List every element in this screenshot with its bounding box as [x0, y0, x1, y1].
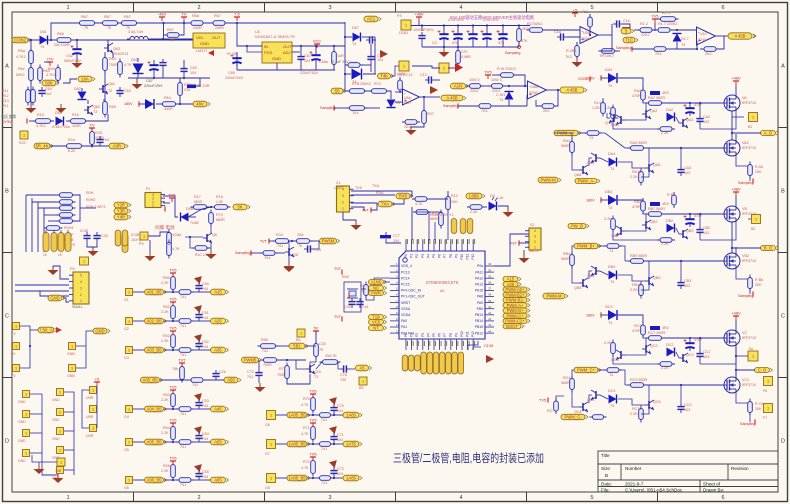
resistor RD4 — [701, 47, 719, 52]
svg-text:U5: U5 — [440, 289, 445, 293]
svg-text:R1a: R1a — [582, 10, 590, 14]
transistor Q6c — [203, 233, 212, 243]
svg-text:1: 1 — [66, 5, 69, 11]
svg-text:PWR: PWR — [371, 291, 381, 296]
svg-text:QC6: QC6 — [611, 358, 619, 362]
svg-text:A: A — [781, 64, 785, 70]
svg-text:TV5: TV5 — [539, 399, 546, 403]
svg-text:TXA: TXA — [372, 184, 380, 188]
bottom pill 10 — [458, 352, 464, 374]
svg-text:B1: B1 — [748, 125, 752, 129]
net pill PWM top right — [538, 177, 561, 183]
RC row 1 input box — [126, 289, 133, 296]
svg-text:14R: 14R — [337, 54, 344, 58]
resistor R2A — [439, 210, 444, 229]
wire lp — [384, 281, 390, 283]
svg-text:440R: 440R — [164, 107, 173, 111]
svg-text:PWM-B2-: PWM-B2- — [506, 298, 525, 303]
ground left — [26, 104, 37, 113]
key box M1 — [69, 365, 76, 372]
svg-text:10: 10 — [396, 317, 400, 321]
driver B wires — [598, 245, 607, 247]
resistor RC2 — [575, 43, 580, 60]
RC row 4 series resistor — [176, 407, 194, 412]
resistor R2B — [467, 205, 485, 210]
svg-text:PW5M: PW5M — [322, 239, 335, 244]
wire u6a in — [395, 91, 402, 93]
svg-text:P0: P0 — [404, 333, 408, 337]
svg-text:C1a: C1a — [554, 30, 562, 34]
pair3 lower pwm pill — [561, 414, 588, 419]
wire r750 — [164, 34, 168, 36]
resistor RF2 — [517, 26, 522, 45]
svg-text:D62: D62 — [131, 58, 138, 62]
svg-text:+48V: +48V — [731, 76, 741, 81]
svg-text:IC3C: IC3C — [100, 234, 109, 238]
svg-text:QC2: QC2 — [650, 344, 658, 348]
net pill 48V — [193, 101, 210, 107]
svg-text:560R: 560R — [561, 257, 570, 261]
svg-text:Y4R: Y4R — [117, 215, 125, 220]
svg-text:U3: U3 — [255, 30, 260, 34]
svg-text:2SA2013: 2SA2013 — [113, 52, 128, 56]
svg-text:T4: T4 — [608, 84, 612, 88]
svg-text:PWM_C+: PWM_C+ — [577, 368, 596, 373]
svg-text:R77: R77 — [279, 367, 286, 371]
svg-text:C_O: C_O — [758, 368, 767, 373]
svg-text:1: 1 — [71, 345, 73, 349]
svg-text:R7C: R7C — [374, 82, 382, 86]
svg-text:CA2: CA2 — [703, 115, 710, 119]
power flag 5v cluster — [94, 377, 100, 387]
svg-text:P10: P10 — [460, 254, 464, 260]
pair3 samp res — [748, 399, 753, 416]
driver C diode — [609, 395, 617, 404]
driver A res 560 v — [570, 139, 575, 156]
pair2 samp res — [748, 275, 753, 292]
pair3 out pill — [755, 368, 773, 373]
svg-text:PC13: PC13 — [401, 270, 410, 274]
svg-text:A06_B5: A06_B5 — [147, 478, 163, 483]
RC row 1 pullup resistor — [171, 274, 176, 293]
svg-text:750R: 750R — [277, 373, 286, 377]
mcu left pills upper — [369, 280, 387, 285]
svg-text:RC9 560R: RC9 560R — [630, 378, 648, 382]
gnd box C1 — [90, 406, 97, 413]
svg-text:1: 1 — [128, 320, 130, 324]
svg-text:2: 2 — [534, 240, 536, 244]
driver A gate cap — [696, 115, 703, 125]
svg-text:71C: 71C — [625, 38, 633, 43]
svg-text:VCC: VCC — [313, 39, 321, 44]
wire xtal — [366, 278, 390, 300]
svg-text:IRF3710: IRF3710 — [742, 101, 756, 105]
capacitor C72 — [452, 30, 463, 42]
svg-text:TV5: TV5 — [169, 456, 176, 461]
svg-text:T3: T3 — [93, 110, 97, 114]
svg-text:470R: 470R — [632, 94, 641, 98]
mcu left pin names — [401, 264, 425, 335]
gnd box A1 — [23, 411, 30, 418]
svg-text:1: 1 — [59, 391, 61, 395]
svg-text:3: 3 — [328, 5, 331, 11]
resistor R34 — [273, 239, 292, 244]
op-amp U9A — [580, 27, 598, 44]
net pill AIN — [451, 83, 469, 89]
svg-text:T4: T4 — [352, 42, 356, 46]
svg-text:1: 1 — [403, 65, 405, 69]
svg-text:DB2: DB2 — [666, 219, 673, 223]
svg-text:P6: P6 — [763, 389, 767, 393]
svg-text:B5: B5 — [359, 386, 364, 390]
net label ACIN — [364, 16, 381, 22]
net pill PWM-C2+ — [503, 319, 530, 324]
svg-text:7K4: 7K4 — [655, 52, 662, 56]
svg-text:1: 1 — [92, 408, 94, 412]
svg-text:L16: L16 — [497, 196, 503, 200]
svg-text:D: D — [5, 439, 9, 445]
driver A boot cap — [684, 104, 695, 116]
svg-text:G6: G6 — [124, 486, 129, 490]
svg-text:Sampling: Sampling — [443, 104, 458, 108]
svg-text:7n4: 7n4 — [103, 138, 109, 142]
RC row 3 input box — [126, 347, 133, 354]
svg-text:C52: C52 — [202, 340, 209, 344]
svg-text:A 45B: A 45B — [446, 96, 457, 101]
op-amp U8A — [528, 81, 547, 99]
driver B res 2.2K left — [611, 216, 616, 233]
power flag top — [89, 123, 95, 133]
RC row 6 out pill — [211, 477, 229, 483]
svg-text:PB15: PB15 — [475, 325, 483, 329]
svg-text:NRST: NRST — [401, 301, 410, 305]
svg-text:TV5: TV5 — [309, 452, 316, 457]
svg-text:AC1: AC1 — [367, 17, 376, 22]
driver B Q mid — [642, 220, 651, 230]
resistor RD0 — [658, 17, 679, 22]
svg-text:TVT: TVT — [260, 240, 268, 244]
svg-text:750R: 750R — [109, 63, 118, 67]
svg-text:RC2: RC2 — [634, 324, 641, 328]
net pill T4b — [378, 73, 394, 79]
RC row 1 cap flag — [194, 273, 205, 284]
capacitor C74 — [481, 30, 492, 42]
net box D2 — [439, 63, 449, 73]
svg-text:P2: P2 — [415, 254, 419, 258]
svg-text:4.7K: 4.7K — [124, 63, 132, 67]
svg-text:220uF/16V: 220uF/16V — [300, 71, 319, 75]
svg-text:4: 4 — [80, 280, 82, 284]
svg-text:35: 35 — [488, 274, 492, 278]
svg-text:PC14: PC14 — [401, 276, 410, 280]
capacitor CC1 — [557, 33, 567, 40]
svg-text:560R: 560R — [561, 144, 570, 148]
net pill PWM-A+ — [503, 303, 530, 308]
svg-text:20K: 20K — [755, 407, 762, 411]
svg-text:GND: GND — [272, 56, 281, 61]
power +5 opc — [572, 8, 578, 18]
resistor R67a — [77, 21, 98, 26]
gnd box C0 — [90, 387, 97, 394]
svg-text:2021-9-7: 2021-9-7 — [625, 482, 644, 487]
connector SMALL — [69, 272, 89, 304]
gnd box B1 — [57, 409, 64, 416]
driver A res 2.2K — [639, 169, 644, 186]
svg-text:6: 6 — [721, 5, 724, 11]
svg-text:VA2: VA2 — [742, 141, 749, 145]
RC row 3 capacitor — [195, 340, 202, 350]
connector X1 UART — [337, 186, 354, 212]
driver C Q mid — [642, 344, 651, 354]
svg-text:1A65: 1A65 — [346, 413, 356, 418]
svg-text:UNR: UNR — [86, 415, 94, 419]
svg-text:76b: 76b — [172, 367, 178, 371]
svg-text:1: 1 — [59, 430, 61, 434]
power flag p1 — [168, 193, 175, 203]
resistor R41 — [364, 282, 369, 299]
IC U2 LM317 — [193, 33, 225, 48]
svg-text:D1.7: D1.7 — [681, 37, 689, 41]
svg-text:PB14: PB14 — [475, 319, 483, 323]
connector P1 — [145, 193, 165, 209]
svg-text:2: 2 — [443, 67, 445, 71]
driver B pwm res — [604, 244, 622, 249]
ground cluster sym — [53, 474, 64, 483]
capacitor C70 — [418, 32, 425, 42]
svg-text:GND: GND — [52, 437, 60, 441]
svg-text:1A85: 1A85 — [346, 476, 356, 481]
svg-text:T4: T4 — [609, 249, 613, 253]
driver A res 2.2K left — [611, 105, 616, 122]
svg-text:RA4: RA4 — [563, 139, 570, 143]
resistor RL3 yellow — [58, 233, 64, 252]
svg-text:P3: P3 — [421, 254, 425, 258]
RC row wide resistor v — [180, 364, 185, 383]
svg-text:QB5: QB5 — [653, 276, 660, 280]
svg-text:1: 1 — [128, 479, 130, 483]
wire mcu top net — [411, 207, 413, 240]
svg-text:D62: D62 — [74, 87, 81, 91]
svg-text:1: 1 — [15, 367, 17, 371]
svg-text:1: 1 — [342, 207, 344, 211]
snub cap T1 — [187, 85, 196, 89]
svg-text:T2: T2 — [108, 89, 112, 93]
svg-text:+48V: +48V — [414, 12, 424, 17]
svg-text:180V: 180V — [586, 314, 595, 318]
svg-text:3: 3 — [328, 495, 331, 501]
svg-text:180V: 180V — [586, 199, 595, 203]
power flag 77V — [47, 57, 54, 67]
capacitor C2x — [159, 59, 166, 69]
svg-text:103: 103 — [684, 284, 690, 288]
block6 wire — [556, 396, 564, 401]
svg-text:A05_B5: A05_B5 — [147, 440, 163, 445]
svg-text:RA9 560R: RA9 560R — [630, 141, 647, 145]
svg-text:RA2: RA2 — [634, 89, 641, 93]
svg-text:DY5V: DY5V — [2, 120, 12, 124]
ground p9 — [145, 252, 156, 261]
ground uamp — [284, 263, 295, 272]
svg-text:R7V: R7V — [216, 213, 224, 217]
svg-text:S2: S2 — [530, 223, 535, 227]
svg-text:T4b: T4b — [380, 74, 388, 79]
svg-text:Q10: Q10 — [314, 370, 321, 374]
gnd box D — [57, 458, 65, 466]
svg-text:RC7 560R: RC7 560R — [648, 331, 666, 335]
RC row 6 cap flag — [194, 461, 205, 472]
capacitor C67b — [148, 61, 159, 73]
svg-text:STM8S005C6T6: STM8S005C6T6 — [426, 280, 459, 285]
connector CON2 — [12, 37, 31, 43]
svg-text:1: 1 — [25, 413, 27, 417]
gnd box A2 — [23, 430, 30, 437]
svg-text:741: 741 — [180, 324, 186, 328]
net label IN — [34, 143, 53, 149]
RC row 5 cap flag — [194, 423, 205, 434]
driver A pwm res — [584, 131, 602, 136]
driver C +48V flag — [731, 311, 741, 321]
svg-text:P11: P11 — [466, 331, 470, 337]
RC row 3 cap flag — [194, 331, 205, 342]
svg-text:Sampling: Sampling — [320, 106, 335, 110]
RC row 1 out pill — [211, 289, 229, 295]
svg-text:4R2: 4R2 — [662, 326, 669, 330]
svg-text:R54: R54 — [163, 426, 170, 430]
svg-text:220uF/25V: 220uF/25V — [144, 84, 163, 88]
svg-text:CA3: CA3 — [684, 166, 691, 170]
driver C Q in — [591, 390, 600, 400]
svg-text:103: 103 — [703, 355, 709, 359]
svg-text:Sampling: Sampling — [738, 181, 753, 185]
RC row 4 pullup resistor — [171, 391, 176, 410]
svg-text:P12: P12 — [471, 331, 475, 337]
resistor R77 — [422, 108, 427, 127]
svg-text:44: 44 — [488, 329, 492, 333]
resistor R5A — [320, 360, 341, 365]
wire small — [53, 266, 69, 279]
svg-text:2.2K: 2.2K — [161, 431, 169, 435]
svg-text:LM317: LM317 — [196, 49, 207, 53]
svg-text:GNB: GNB — [67, 352, 75, 356]
svg-text:P9: P9 — [139, 242, 144, 246]
svg-text:47uF: 47uF — [694, 214, 703, 218]
pair3 out ybox — [748, 351, 758, 361]
svg-text:180V: 180V — [124, 102, 133, 106]
ground d — [380, 50, 388, 58]
resistor R67b — [100, 21, 121, 26]
bottom RC 2 wires — [276, 443, 287, 445]
svg-text:1: 1 — [270, 414, 272, 418]
net pill amp out — [356, 365, 372, 371]
pair2 bus — [731, 222, 733, 253]
driver A res 560R — [646, 101, 665, 106]
svg-text:P9: P9 — [454, 254, 458, 258]
svg-text:GND: GND — [18, 420, 26, 424]
driver C Q left — [616, 350, 625, 360]
svg-text:R72: R72 — [303, 460, 310, 464]
svg-text:103: 103 — [703, 120, 709, 124]
svg-text:TV5: TV5 — [169, 326, 176, 331]
svg-text:VSSA: VSSA — [401, 307, 411, 311]
svg-text:P10: P10 — [460, 331, 464, 337]
ground below C62 — [72, 59, 83, 68]
svg-text:R55: R55 — [163, 464, 170, 468]
svg-text:R B6: R B6 — [755, 278, 763, 282]
ground opc — [572, 58, 583, 67]
wire s2 — [494, 234, 529, 266]
svg-text:A35: A35 — [214, 348, 222, 353]
driver B res 560 v — [570, 252, 575, 269]
svg-text:220uF/16V: 220uF/16V — [225, 76, 244, 80]
ground u6a — [430, 86, 438, 94]
svg-text:VC6a: VC6a — [172, 233, 182, 237]
svg-text:R1.5: R1.5 — [662, 11, 670, 15]
svg-text:QA5: QA5 — [653, 163, 660, 167]
svg-text:103: 103 — [684, 171, 690, 175]
svg-text:X1: X1 — [336, 181, 341, 185]
svg-text:38: 38 — [488, 293, 492, 297]
svg-text:TV5: TV5 — [169, 297, 176, 302]
bottom pill 7 — [439, 352, 445, 374]
RC row 6 power flag — [169, 456, 176, 466]
net pill PWM-C+ — [503, 313, 530, 318]
svg-text:IRF3710: IRF3710 — [742, 383, 756, 387]
svg-text:2.2K: 2.2K — [630, 412, 638, 416]
svg-text:QC5: QC5 — [653, 400, 661, 404]
svg-text:QA3: QA3 — [686, 118, 693, 122]
svg-text:C64: C64 — [45, 87, 52, 91]
svg-text:A1N: A1N — [454, 84, 462, 89]
svg-text:1A05_B5: 1A05_B5 — [288, 442, 306, 447]
svg-text:G7: G7 — [265, 452, 270, 456]
svg-text:P8: P8 — [449, 333, 453, 337]
svg-text:Sampling: Sampling — [616, 46, 631, 50]
svg-text:B: B — [781, 189, 785, 195]
resistor RC3 — [588, 14, 593, 30]
resistor R56 — [258, 344, 279, 349]
RC row 2 power flag — [169, 297, 176, 307]
svg-text:PWM-M: PWM-M — [546, 294, 562, 299]
svg-text:2.2K: 2.2K — [161, 310, 169, 314]
row1 wire — [602, 98, 604, 102]
svg-text:IRF3710: IRF3710 — [742, 259, 756, 263]
transistor Q8 — [285, 247, 294, 257]
power flag -48V — [414, 12, 424, 22]
driver A Q in2 — [579, 165, 588, 175]
ground lc — [206, 250, 217, 259]
diode DW1 — [505, 92, 514, 100]
RC row 2 pullup resistor — [171, 303, 176, 322]
svg-text:G6: G6 — [265, 423, 270, 427]
driver A Q in — [591, 153, 600, 163]
capacitor CC2 — [613, 20, 623, 27]
wire lc2 — [210, 224, 212, 234]
wire c77 — [385, 232, 387, 235]
driver B res 2.2K — [639, 282, 644, 299]
net pill PWM-B2- — [503, 298, 530, 303]
driver C res 560 v — [570, 376, 575, 393]
driver A wires — [578, 132, 587, 134]
svg-text:D15 C12: D15 C12 — [398, 73, 413, 77]
svg-text:GND: GND — [18, 400, 26, 404]
transistor Q62 — [84, 105, 93, 115]
svg-text:DB3: DB3 — [605, 190, 612, 194]
driver A Q mid — [645, 163, 654, 173]
driver A hv diode — [608, 73, 617, 83]
svg-text:+5: +5 — [573, 8, 577, 13]
wire bus -48 — [411, 25, 530, 27]
net pill 5K — [233, 204, 250, 210]
